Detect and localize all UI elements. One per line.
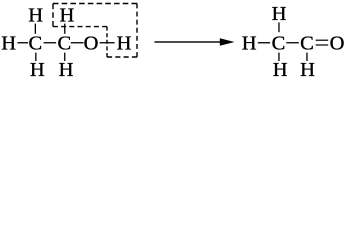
svg-text:H: H <box>272 3 287 25</box>
wire: bond C1-bottomH <box>278 53 279 61</box>
wire: bond H-C1 <box>18 42 29 43</box>
svg-text:H: H <box>59 59 74 78</box>
wire: bond C2-bottomH <box>306 53 307 61</box>
svg-text:H: H <box>30 59 45 78</box>
wire: bond C1-bottomH <box>35 53 36 61</box>
svg-text:O: O <box>84 33 99 55</box>
wire: box bottom edge <box>107 56 137 58</box>
svg-text:H: H <box>117 33 132 55</box>
svg-text:O: O <box>330 33 345 55</box>
wire: bond C1-C2 <box>286 42 299 43</box>
svg-text:C: C <box>300 33 314 55</box>
dash-dot highlight box around removed H atoms <box>53 4 137 58</box>
wire: box left vertical edge <box>52 4 54 27</box>
wire: box mid horizontal edge (crosses C2-H bond) <box>53 26 107 28</box>
wire: bond C1-topH <box>278 22 279 32</box>
svg-text:H: H <box>273 59 288 78</box>
wire: bond C1-topH <box>35 24 36 34</box>
svg-text:C: C <box>28 33 42 55</box>
reaction arrow <box>155 41 222 42</box>
wire: bond H-C1 <box>258 42 270 43</box>
svg-text:H: H <box>242 33 257 55</box>
svg-text:H: H <box>1 33 16 55</box>
wire: bond C2-O <box>71 42 84 43</box>
wire: bond O-H (crosses dash box edge) <box>100 42 115 43</box>
svg-text:H: H <box>300 59 315 78</box>
wire: box right vertical edge <box>136 4 138 58</box>
wire: double bond C2=O upper line <box>316 40 329 41</box>
svg-text:C: C <box>57 33 71 55</box>
wire: bond C2-bottomH <box>64 53 65 61</box>
wire: box inner vertical edge (crosses O-H bond) <box>106 27 108 57</box>
wire: bond C2-topH <box>64 24 65 34</box>
svg-text:C: C <box>272 33 286 55</box>
svg-text:H: H <box>59 4 74 26</box>
svg-text:H: H <box>28 4 43 26</box>
wire: bond C1-C2 <box>44 42 57 43</box>
arrowhead <box>220 38 235 46</box>
wire: box top edge <box>53 3 137 5</box>
wire: double bond C2=O lower line <box>316 44 329 45</box>
